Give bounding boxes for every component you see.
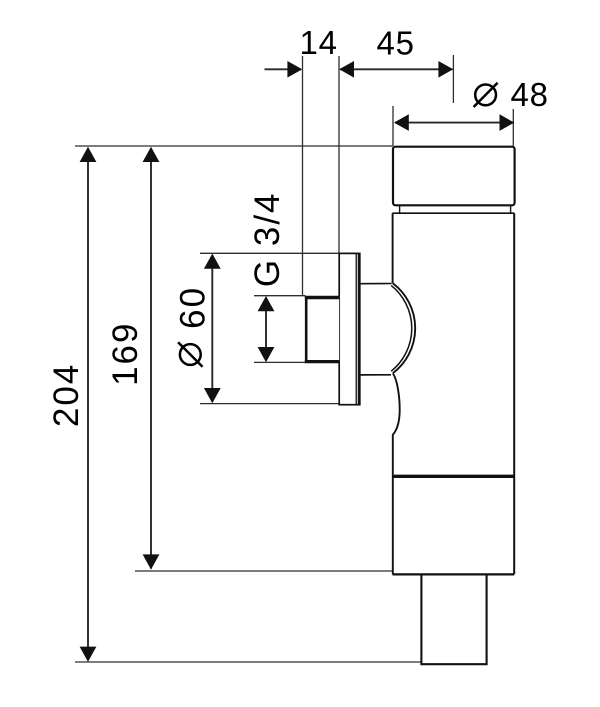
svg-text:204: 204: [47, 363, 86, 427]
svg-text:G 3/4: G 3/4: [248, 191, 287, 287]
svg-text:48: 48: [510, 76, 548, 113]
svg-text:14: 14: [300, 24, 338, 61]
svg-text:60: 60: [174, 286, 213, 329]
svg-text:169: 169: [106, 321, 145, 385]
svg-text:45: 45: [376, 25, 414, 62]
